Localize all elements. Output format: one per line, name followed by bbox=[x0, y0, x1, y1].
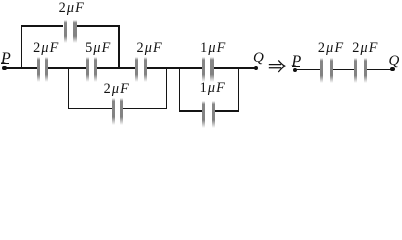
wire riser B down bbox=[166, 68, 167, 109]
wire main segment C2 to C3 bbox=[97, 67, 135, 69]
arrow implies bbox=[268, 60, 286, 73]
wire main segment C4 to Q bbox=[214, 67, 256, 69]
capacitor C1 2uF plates bbox=[37, 57, 40, 82]
label 2uF (C3) bbox=[137, 41, 163, 55]
node P (left circuit) bbox=[1, 51, 11, 67]
wire bottom2 left segment bbox=[179, 110, 203, 112]
wire riser A down bbox=[68, 68, 69, 109]
capacitor C6 1uF plates bbox=[202, 101, 205, 128]
wire top-box top right segment bbox=[77, 25, 121, 26]
wire right segment R1 to R2 bbox=[333, 69, 354, 71]
wire right segment R2 to Q bbox=[367, 69, 392, 71]
capacitor R1 2uF plates bbox=[320, 58, 323, 83]
wire bottom1 left segment bbox=[68, 108, 113, 110]
wire riser C down bbox=[179, 68, 180, 112]
capacitor C3 2uF plates bbox=[135, 57, 138, 82]
label 1uF (C4) bbox=[200, 41, 226, 55]
wire main segment C1 to C2 bbox=[48, 67, 86, 69]
wire right segment P to R1 bbox=[295, 69, 320, 71]
label 2uF (R2) bbox=[352, 41, 378, 55]
label 2uF (R1) bbox=[318, 41, 344, 55]
node P (right circuit) bbox=[292, 54, 302, 70]
wire main segment C3 to C4 bbox=[147, 67, 202, 69]
label 2uF (top) bbox=[59, 1, 85, 15]
wire top-box left vertical bbox=[21, 25, 22, 68]
label 2uF (C1) bbox=[33, 41, 59, 55]
node Q (left circuit) bbox=[253, 51, 264, 66]
wire bottom2 right segment bbox=[215, 110, 239, 112]
node Q (right circuit) bbox=[389, 54, 400, 69]
capacitor C2 5uF plates bbox=[86, 57, 89, 82]
label 1uF (C6) bbox=[200, 81, 226, 95]
capacitor C5 2uF plates bbox=[112, 98, 115, 125]
wire top-box top left segment bbox=[21, 25, 64, 26]
label 2uF (C5) bbox=[104, 82, 130, 96]
capacitor Ctop 2uF plates bbox=[64, 20, 67, 43]
wire bottom1 right segment bbox=[123, 108, 167, 110]
wire riser D down bbox=[238, 68, 239, 112]
label 5uF (C2) bbox=[85, 41, 111, 55]
capacitor R2 2uF plates bbox=[354, 58, 357, 83]
wire top-box right vertical bbox=[118, 25, 119, 68]
capacitor C4 1uF plates bbox=[202, 57, 205, 82]
wire main segment P to C1 bbox=[4, 67, 37, 69]
